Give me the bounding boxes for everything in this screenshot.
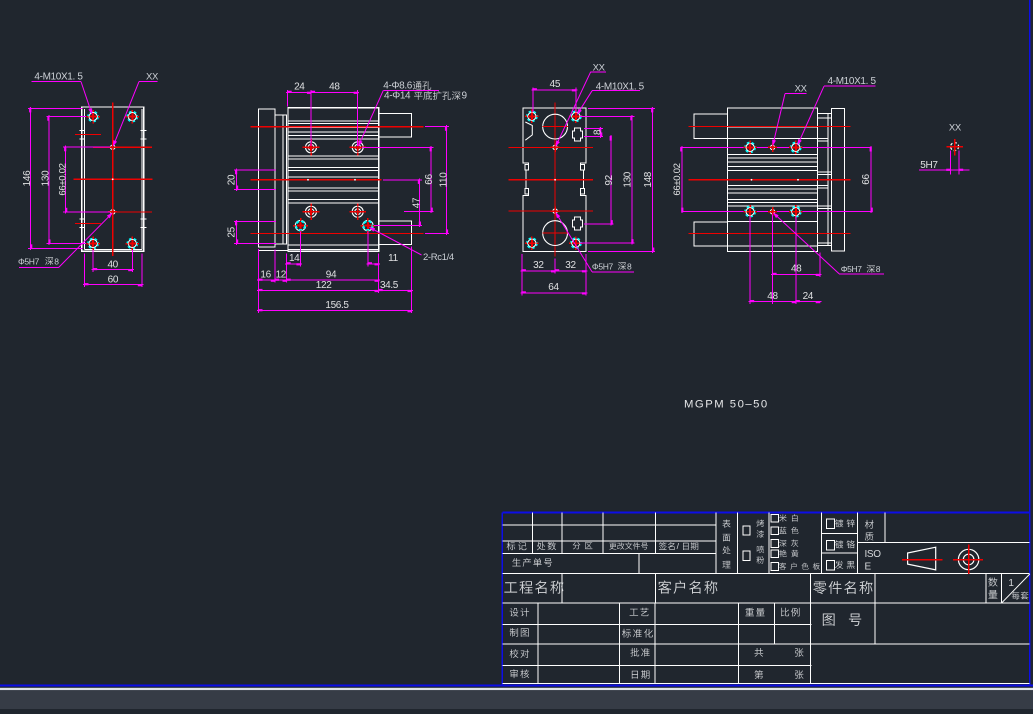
view3 corner hole M10 bottom-right [569,236,583,250]
ISO E [865,549,882,573]
production order row [512,558,552,567]
view1 left edge notch ticks [79,130,146,227]
view2 flange bottom lines [258,250,288,252]
dim 25 (view2 left) [226,220,276,245]
dim 40 [92,250,134,272]
svg-text:66±0.02: 66±0.02 [58,163,69,195]
view3 side port boss upper [573,128,583,141]
svg-text:2-Rc1/4: 2-Rc1/4 [423,252,454,263]
view2 middle centerline [251,179,382,181]
colour options [771,514,820,570]
dim 66 (view4 right) [861,146,873,213]
dim 32 left (view3 bottom) [520,254,556,296]
svg-text:XX: XX [795,83,808,94]
header labels row [507,541,699,551]
svg-text:40: 40 [107,260,118,271]
view1 centerline through lower 5H7 hole [93,211,152,213]
svg-text:92: 92 [604,174,615,185]
view4 M10 hole top-right [789,141,803,155]
dim 14 (view2 bottom) [285,232,302,267]
svg-text:4-Φ14: 4-Φ14 [384,91,411,102]
label 5H7 deep8 (view4) [773,212,884,274]
centreline dots [112,178,799,180]
dim 148 (view3 right) [588,107,655,253]
label 4-M10X1.5 (view4) [797,76,876,146]
label XX (view4) [772,83,807,146]
row: project / customer / part name [504,580,872,594]
svg-text:66±0.02: 66±0.02 [672,163,683,195]
view1 corner hole M10 bottom-left [86,237,100,251]
view3 middle centerline [508,179,593,181]
part number text MGPM 50-50 [684,398,769,410]
view4 extension line through bottom hole row [682,211,871,213]
title block horizontal grid lines [502,525,1029,683]
projection symbol circles (red crosshair) [953,544,983,574]
view2 Rc1/4 port right [361,218,376,233]
dim 32 right (view3 bottom) [554,254,588,296]
dim 11 (view2 bottom) [366,232,398,267]
svg-text:E: E [865,562,872,573]
svg-text:12: 12 [276,269,287,280]
svg-text:32: 32 [533,260,544,271]
svg-text:20: 20 [226,174,237,185]
svg-text:66: 66 [861,174,872,185]
dim 66±0.02 [58,146,110,214]
view2 Rc1/4 port left [293,218,308,233]
view1 centerline through upper 5H7 hole [93,146,152,148]
weight / scale labels [745,608,799,617]
svg-text:45: 45 [550,79,561,90]
dim 20 (view2 left) [226,169,276,191]
view4 M10 hole bottom-right [789,205,803,219]
dim 130 (view3 right) [580,115,634,245]
view3 dowel hole 5H7 upper [551,143,560,152]
svg-text:8: 8 [54,256,59,266]
svg-text:11: 11 [388,253,398,264]
svg-text:MGPM 50–50: MGPM 50–50 [684,398,769,410]
detail 5H7 hole [947,139,963,156]
view3 rod bore circle top [543,114,568,139]
svg-text:Φ5H7: Φ5H7 [592,261,614,271]
svg-text:146: 146 [22,170,33,186]
svg-text:8: 8 [627,261,632,271]
view3 side notch squares [525,164,584,194]
view1 corner hole M10 bottom-right [126,237,140,251]
dim 64 (view3 bottom) [520,282,587,295]
svg-text:XX: XX [146,71,159,82]
svg-text:XX: XX [949,122,962,133]
view4 rod centerline bottom [689,233,851,235]
status panel [0,690,1033,709]
svg-text:130: 130 [622,171,633,187]
detail XX label [949,122,962,133]
title block vertical grid lines [533,512,1002,683]
svg-text:64: 64 [548,282,559,293]
view1 notch centerline dashes (red) [75,135,101,224]
view3 corner hole M10 top-left [525,110,539,124]
svg-text:Φ5H7: Φ5H7 [841,264,863,274]
quantity cell diagonal [1001,574,1029,603]
label 5H7 deep8 (view1) [18,213,113,268]
svg-text:1: 1 [1008,578,1014,589]
svg-text:4-M10X1. 5: 4-M10X1. 5 [828,76,877,87]
dim 48 lower (view4 bottom) [749,215,798,305]
view1 dowel hole 5H7 lower [108,207,117,216]
view3 side port boss lower [573,217,583,230]
dim 146 [22,107,82,250]
view1 horizontal centerline [74,178,153,180]
svg-text:122: 122 [316,280,332,291]
process rows labels [622,608,653,679]
svg-text:48: 48 [329,82,340,93]
dim 24 (view4 bottom) [794,217,821,305]
sheets labels [754,648,803,679]
view1 dowel hole 5H7 upper [108,143,117,152]
view4 M10 hole top-left [743,141,757,155]
svg-text:32: 32 [565,260,576,271]
dim 34.5 (view2 bottom) [377,280,413,292]
svg-text:5H7: 5H7 [920,160,938,171]
drawing number cell [823,613,861,625]
view2 body outline [288,108,379,252]
detail dim 5H7 [919,151,970,175]
label 5H7 deep8 (view3) [555,212,634,272]
svg-text:66: 66 [424,174,435,185]
svg-text:148: 148 [643,171,654,187]
svg-text:4-M10X1. 5: 4-M10X1. 5 [34,71,83,82]
view4 body section lines [727,127,817,246]
window sash line [0,688,1033,690]
view2 counterbore hole bottom-right [349,203,366,220]
dim 66 (view2 right) [362,146,435,213]
material column [865,520,874,541]
view1 vertical centerline [112,103,114,257]
view4 dowel hole 5H7 bottom [768,207,777,216]
view4 body outline [727,108,817,252]
view1 corner hole M10 top-right [126,110,140,124]
label 4-M10X1.5 (view1) [32,71,93,114]
view1 plate outline inner [85,109,142,249]
svg-text:16: 16 [260,269,271,280]
label XX (view3) [555,63,606,147]
view3 dowel hole 5H7 lower [551,207,560,216]
dim 12 (view2 bottom) [273,254,288,283]
svg-text:8: 8 [592,129,603,135]
dim 24 (view2 top) [286,82,312,107]
label XX (view1) [113,71,159,146]
dim 60 [83,254,143,288]
view3 rod bore circle bottom [543,221,568,246]
dim 92 (view3 right) [584,135,615,226]
label 4-M10X1.5 (view3) [577,82,645,115]
view3 vertical centerline [554,103,556,257]
view4 M10 hole bottom-left [743,205,757,219]
dim 66±0.02 (view4 left) [672,146,684,213]
label 4-phi8.6 through hole (view2) [358,81,467,147]
label 2-Rc1/4 (view2) [369,227,454,263]
view2 counterbore hole top-left [303,139,320,156]
dim 130 [40,115,86,245]
projection symbol cone (red centerline) [902,547,942,570]
view4 middle centerline [689,179,851,181]
dim 110 (view2 right) [425,125,450,235]
svg-text:156.5: 156.5 [325,300,349,311]
svg-text:24: 24 [803,291,814,302]
svg-text:Φ5H7: Φ5H7 [18,256,40,266]
dim 8 (view3 right) [584,127,603,138]
view4 spacer plate [818,114,832,246]
svg-text:9: 9 [462,91,468,102]
view4 extension line through top hole row [682,146,871,148]
view2 guide rod top [379,114,412,138]
svg-text:24: 24 [294,82,305,93]
svg-text:48: 48 [791,264,802,275]
view4 rod centerline top [689,125,851,127]
view1 corner hole M10 top-left [86,110,100,124]
view2 counterbore hole bottom-left [303,203,320,220]
view3 corner hole M10 bottom-left [525,236,539,250]
view3 outline with notched edges [523,108,586,252]
quantity cell [988,577,1028,599]
view2 counterbore hole top-right [349,139,366,156]
dim 122 (view2 bottom) [257,254,380,293]
surface treatment column [722,520,730,569]
view3 centerline through lower 5H7 [508,210,593,212]
view4 guide rod bottom [694,222,727,246]
view1 plate outline outer [82,107,144,251]
svg-text:25: 25 [226,226,237,237]
view2 guide rod bottom [379,221,412,245]
dim 45 (view3 top) [531,79,577,112]
view3 top-left wedge [525,122,532,140]
view2 rod centerline bottom [251,233,424,235]
view3 centerline through upper 5H7 [508,146,593,148]
dim 48 (view2 top) [310,82,360,146]
svg-text:14: 14 [289,253,300,264]
dim 156.5 (view2 bottom) [257,247,413,314]
view2 rod centerline top [251,126,424,128]
view2 flange plate [258,109,275,247]
svg-text:60: 60 [108,275,119,286]
view3 corner hole M10 top-right [569,110,583,124]
svg-text:47: 47 [411,197,422,208]
svg-text:110: 110 [439,172,450,188]
title block outline (blue) [502,512,1029,685]
plating options [827,519,855,570]
svg-text:8: 8 [876,264,881,274]
svg-text:34.5: 34.5 [380,280,399,291]
dim 16 (view2 bottom) [257,250,277,283]
view2 spacer plate [275,115,287,244]
dim 47 (view2 right) [374,178,422,227]
dim 94 (view2 bottom) [285,269,380,281]
dim 48 upper (view4 bottom) [771,253,821,278]
svg-text:48: 48 [767,291,778,302]
view2 body section lines [288,121,379,245]
view4 dowel hole 5H7 top [768,143,777,152]
svg-text:130: 130 [40,170,51,186]
paint / powder options [743,520,764,564]
svg-text:ISO: ISO [865,549,882,560]
svg-text:94: 94 [326,269,337,280]
designer rows labels [510,608,530,678]
view4 end plate [832,109,845,251]
view4 guide rod top [694,114,727,138]
